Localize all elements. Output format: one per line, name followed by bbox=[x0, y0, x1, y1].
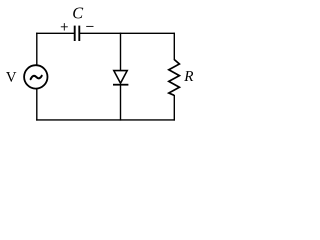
label C (capacitor name) bbox=[73, 8, 83, 19]
wire top-left (corner to capacitor left plate) bbox=[36, 32, 75, 34]
resistor R (zigzag) bbox=[169, 60, 180, 96]
wire middle vertical (top junction to diode) bbox=[120, 33, 122, 71]
voltage source V (sine source circle) bbox=[24, 65, 47, 88]
wire right vertical (resistor to bottom corner) bbox=[173, 95, 175, 121]
capacitor C (two plates) bbox=[75, 26, 80, 41]
wire middle vertical (diode to bottom junction) bbox=[120, 85, 122, 121]
wire left vertical (source to bottom corner) bbox=[36, 89, 38, 121]
label V (source name) bbox=[6, 72, 16, 82]
label R (resistor name) bbox=[184, 71, 193, 81]
wire bottom horizontal bbox=[36, 119, 175, 121]
polarity - mark bbox=[86, 25, 93, 27]
wire top-right (capacitor right plate to top-right corner) bbox=[79, 32, 174, 34]
wire left vertical (top corner down to source) bbox=[36, 33, 38, 66]
diode (triangle anode + cathode bar) bbox=[113, 71, 128, 85]
polarity + mark bbox=[61, 23, 68, 30]
wire right vertical (top corner to resistor) bbox=[173, 33, 175, 60]
